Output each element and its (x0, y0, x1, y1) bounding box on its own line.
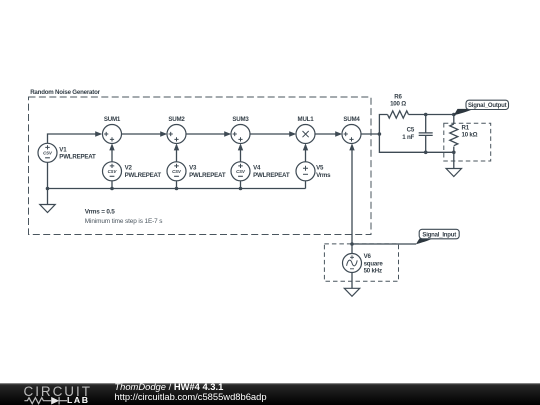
svg-text:PWLREPEAT: PWLREPEAT (253, 172, 290, 179)
svg-text:V1: V1 (59, 146, 67, 153)
svg-text:MUL1: MUL1 (298, 116, 315, 123)
svg-text:V2: V2 (125, 165, 133, 172)
svg-text:V3: V3 (189, 165, 197, 172)
svg-text:V6: V6 (364, 253, 372, 260)
svg-text:100 Ω: 100 Ω (390, 101, 406, 108)
svg-text:Signal_Output: Signal_Output (468, 103, 507, 109)
svg-text:Vrms = 0.5: Vrms = 0.5 (85, 209, 115, 216)
svg-text:SUM3: SUM3 (232, 116, 249, 123)
svg-text:Vrms: Vrms (316, 172, 331, 179)
svg-text:Minimum time step is 1E-7 s: Minimum time step is 1E-7 s (85, 218, 163, 225)
svg-text:C5: C5 (407, 127, 415, 134)
svg-text:10 kΩ: 10 kΩ (462, 132, 478, 139)
svg-text:SUM4: SUM4 (343, 116, 360, 123)
svg-text:V4: V4 (253, 165, 261, 172)
svg-text:50 kHz: 50 kHz (364, 268, 382, 275)
svg-text:Random Noise Generator: Random Noise Generator (30, 89, 100, 96)
svg-text:SUM2: SUM2 (168, 116, 185, 123)
svg-text:http://circuitlab.com/c5855wd8: http://circuitlab.com/c5855wd8b6adp (114, 391, 266, 402)
svg-text:SUM1: SUM1 (104, 116, 121, 123)
svg-text:V5: V5 (316, 165, 324, 172)
svg-text:1 nF: 1 nF (402, 134, 414, 141)
svg-text:PWLREPEAT: PWLREPEAT (189, 172, 226, 179)
svg-text:PWLREPEAT: PWLREPEAT (125, 172, 162, 179)
svg-text:LAB: LAB (67, 395, 90, 405)
svg-text:Signal_Input: Signal_Input (422, 233, 456, 239)
svg-text:R6: R6 (394, 93, 402, 100)
svg-text:square: square (364, 260, 384, 267)
svg-text:PWLREPEAT: PWLREPEAT (59, 154, 96, 161)
svg-text:R1: R1 (462, 124, 470, 131)
